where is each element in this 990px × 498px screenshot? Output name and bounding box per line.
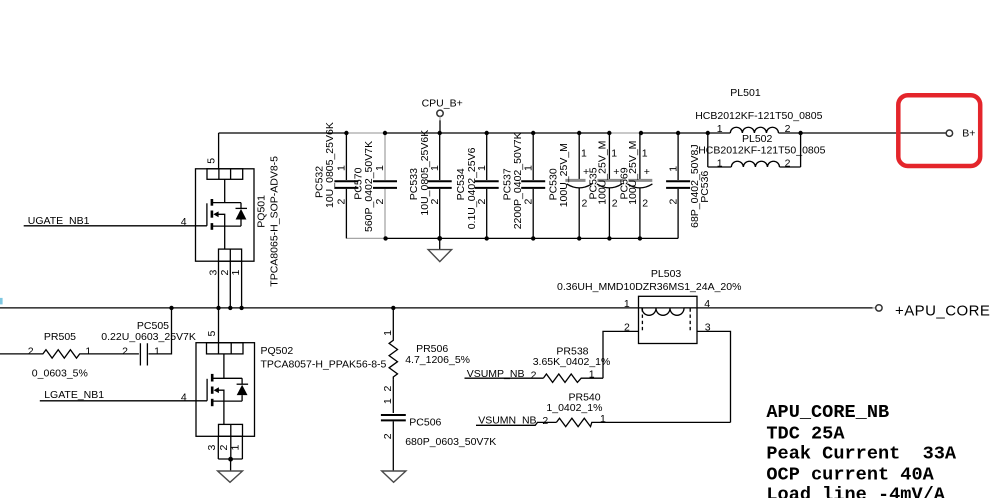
- node +APU_CORE_ output: [873, 303, 990, 320]
- svg-text:1: 1: [600, 413, 606, 425]
- transistor PQ501 TPCA8065-H_SOP-ADV8-5: [181, 156, 281, 287]
- svg-text:3: 3: [208, 270, 220, 276]
- svg-text:2: 2: [218, 445, 230, 451]
- node CPU_B+: [422, 98, 463, 136]
- svg-text:PQ502: PQ502: [261, 345, 294, 357]
- node B+: [946, 128, 975, 140]
- svg-text:PL503: PL503: [651, 268, 682, 280]
- svg-text:1: 1: [336, 165, 348, 171]
- capacitor PC569 (polarized): [619, 131, 653, 241]
- capacitor PC530 (polarized): [548, 131, 592, 241]
- svg-text:OCP current 40A: OCP current 40A: [766, 464, 934, 485]
- svg-text:2: 2: [667, 199, 679, 205]
- svg-text:B+: B+: [962, 128, 975, 140]
- svg-text:5: 5: [206, 158, 218, 164]
- svg-text:2: 2: [336, 199, 348, 205]
- svg-text:PR506: PR506: [416, 343, 448, 355]
- svg-text:4.7_1206_5%: 4.7_1206_5%: [405, 354, 470, 366]
- svg-text:1: 1: [429, 165, 441, 171]
- svg-text:TDC 25A: TDC 25A: [766, 424, 845, 445]
- svg-text:3.65K_0402_1%: 3.65K_0402_1%: [533, 356, 611, 368]
- svg-text:10U_0805_25V6K: 10U_0805_25V6K: [324, 122, 336, 208]
- resistor PR506: [382, 306, 470, 392]
- net LGATE_NB1: [40, 389, 207, 401]
- svg-text:680P_0603_50V7K: 680P_0603_50V7K: [405, 436, 496, 448]
- svg-text:1: 1: [382, 330, 394, 336]
- svg-text:560P_0402_50V7K: 560P_0402_50V7K: [363, 141, 375, 232]
- red highlight box around B+: [898, 95, 980, 166]
- svg-text:APU_CORE_NB: APU_CORE_NB: [766, 402, 889, 423]
- svg-text:PQ501: PQ501: [256, 195, 268, 228]
- svg-text:100U_25V_M: 100U_25V_M: [597, 141, 609, 205]
- text block APU_CORE_NB specs: [766, 402, 957, 498]
- svg-text:2: 2: [382, 386, 394, 392]
- svg-text:2: 2: [785, 123, 791, 135]
- capacitor PC506: [381, 379, 496, 471]
- transistor PQ502 TPCA8057-H_PPAK56-8-5: [181, 331, 387, 451]
- svg-text:2: 2: [612, 198, 618, 210]
- svg-text:2: 2: [642, 198, 648, 210]
- svg-text:1: 1: [611, 147, 617, 159]
- ground under PQ502: [218, 471, 243, 482]
- net VSUMN_NB: [476, 414, 556, 426]
- svg-text:2: 2: [531, 370, 537, 382]
- wire PL503 pin2 to PR538: [603, 331, 639, 378]
- wire PQ502 source pins to ground: [218, 436, 242, 471]
- svg-text:TPCA8057-H_PPAK56-8-5: TPCA8057-H_PPAK56-8-5: [261, 358, 387, 370]
- svg-text:PC506: PC506: [409, 417, 441, 429]
- svg-text:CPU_B+: CPU_B+: [422, 98, 463, 110]
- svg-text:Load line -4mV/A: Load line -4mV/A: [766, 485, 945, 498]
- off-page marker fragment (cyan): [0, 298, 3, 305]
- capacitor PC537: [502, 131, 546, 241]
- svg-text:4: 4: [181, 391, 187, 403]
- wire PL503 pin3 down to PR540: [697, 331, 731, 422]
- svg-text:HCB2012KF-121T50_0805: HCB2012KF-121T50_0805: [695, 110, 822, 122]
- svg-text:VSUMN_NB: VSUMN_NB: [478, 414, 536, 426]
- resistor PR540: [542, 392, 730, 427]
- svg-text:1: 1: [522, 165, 534, 171]
- wire mid bus (switch node): [0, 307, 873, 309]
- svg-text:1: 1: [717, 123, 723, 135]
- inductor PL501: [695, 87, 822, 135]
- ground under cap bank: [428, 236, 452, 262]
- svg-text:Peak Current 33A: Peak Current 33A: [766, 444, 957, 465]
- svg-text:PC536: PC536: [699, 171, 711, 203]
- svg-text:2: 2: [122, 345, 128, 357]
- svg-text:HCB2012KF-121T50_0805: HCB2012KF-121T50_0805: [698, 144, 825, 156]
- svg-text:1_0402_1%: 1_0402_1%: [546, 402, 602, 414]
- resistor PR538: [531, 346, 611, 383]
- wire to B+: [801, 132, 947, 134]
- capacitor PC534: [455, 131, 499, 241]
- svg-text:2: 2: [542, 415, 548, 427]
- svg-text:1: 1: [230, 270, 242, 276]
- svg-text:1: 1: [717, 157, 723, 169]
- svg-text:0_0603_5%: 0_0603_5%: [32, 368, 88, 380]
- svg-text:1: 1: [667, 166, 679, 172]
- resistor PR505: [0, 331, 139, 379]
- svg-text:TPCA8065-H_SOP-ADV8-5: TPCA8065-H_SOP-ADV8-5: [269, 156, 281, 287]
- capacitor PC533: [408, 130, 452, 241]
- svg-text:0.22U_0603_25V7K: 0.22U_0603_25V7K: [101, 331, 196, 343]
- wire PQ501 pins 3,2,1 to mid bus: [216, 261, 244, 310]
- net UGATE_NB1: [24, 215, 207, 227]
- svg-text:4: 4: [704, 298, 710, 310]
- ground under PC506: [382, 471, 406, 482]
- svg-text:+APU_CORE_NB: +APU_CORE_NB: [895, 303, 990, 320]
- svg-text:2: 2: [476, 199, 488, 205]
- capacitor PC532: [314, 122, 359, 238]
- svg-text:2: 2: [429, 199, 441, 205]
- svg-text:100U_25V_M: 100U_25V_M: [627, 141, 639, 205]
- svg-text:2200P_0402_50V7K: 2200P_0402_50V7K: [512, 132, 524, 229]
- svg-text:2: 2: [785, 157, 791, 169]
- inductor PL503 0.36UH: [557, 268, 741, 344]
- svg-text:1: 1: [581, 147, 587, 159]
- svg-text:1: 1: [374, 165, 386, 171]
- svg-text:100U_25V_M: 100U_25V_M: [558, 143, 570, 207]
- capacitor PC505: [101, 306, 196, 366]
- svg-text:PL501: PL501: [730, 87, 761, 99]
- svg-text:1: 1: [624, 298, 630, 310]
- svg-text:1: 1: [85, 345, 91, 357]
- svg-text:1: 1: [382, 398, 394, 404]
- svg-text:2: 2: [28, 345, 34, 357]
- svg-text:2: 2: [522, 199, 534, 205]
- capacitor PC535 (polarized, gray top bus segment): [588, 131, 624, 241]
- svg-text:PR505: PR505: [44, 331, 76, 343]
- svg-text:2: 2: [382, 433, 394, 439]
- capacitor PC536: [666, 131, 711, 239]
- inductor PL502 (parallel branch): [698, 131, 825, 170]
- wire PQ501 pin5 to top bus: [218, 133, 220, 169]
- wire top bus from PQ501 drain to caps and PL501: [219, 132, 708, 134]
- svg-text:LGATE_NB1: LGATE_NB1: [44, 389, 104, 401]
- svg-text:1: 1: [476, 165, 488, 171]
- capacitor PC570 (gray wires): [353, 131, 398, 241]
- svg-text:+: +: [644, 166, 650, 178]
- svg-text:1: 1: [154, 345, 160, 357]
- svg-text:UGATE_NB1: UGATE_NB1: [28, 215, 90, 227]
- svg-text:0.1U_0402_25V6: 0.1U_0402_25V6: [466, 147, 478, 229]
- svg-text:1: 1: [589, 369, 595, 381]
- svg-text:1: 1: [642, 147, 648, 159]
- wire PQ502 pin5 to mid bus: [218, 308, 220, 343]
- net VSUMP_NB: [465, 368, 544, 380]
- svg-text:2: 2: [374, 199, 386, 205]
- wire cap bank bottom bus: [346, 237, 678, 239]
- svg-text:5: 5: [206, 331, 218, 337]
- svg-text:3: 3: [206, 445, 218, 451]
- svg-text:0.36UH_MMD10DZR36MS1_24A_20%: 0.36UH_MMD10DZR36MS1_24A_20%: [557, 281, 741, 293]
